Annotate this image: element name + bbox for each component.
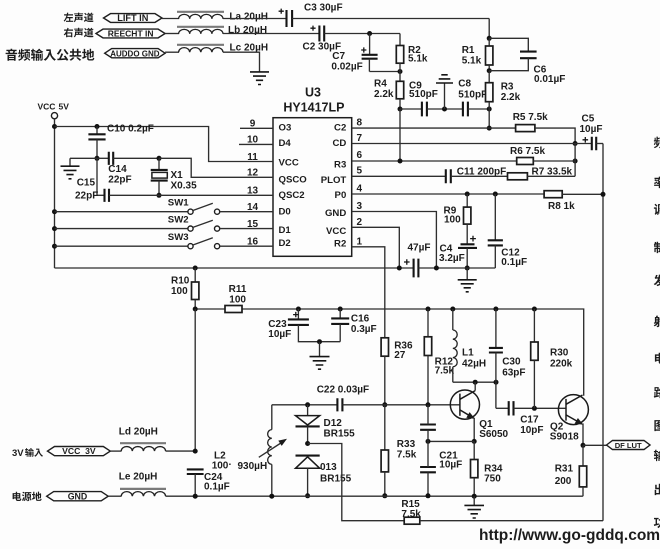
resistor R12 <box>426 307 431 312</box>
svg-text:10pF: 10pF <box>520 425 543 436</box>
svg-text:42µH: 42µH <box>462 359 486 370</box>
inductor La <box>179 14 223 19</box>
node <box>317 339 322 344</box>
node <box>157 193 162 198</box>
inductor L2 variable <box>271 405 273 430</box>
svg-text:3: 3 <box>357 201 363 212</box>
wire <box>488 19 490 39</box>
wire <box>223 33 319 35</box>
svg-text:R30: R30 <box>550 348 569 359</box>
wire SW3 line <box>55 245 188 247</box>
capacitor C8 <box>463 102 468 117</box>
resistor R10 <box>194 268 196 282</box>
svg-text:7.5k: 7.5k <box>397 450 417 461</box>
resistor R1 <box>488 38 490 46</box>
label 右声道 <box>64 28 94 38</box>
node <box>472 494 477 499</box>
wire ground rail <box>166 495 583 497</box>
wire VCC bus <box>54 119 56 268</box>
wire <box>596 143 603 145</box>
resistor R34 <box>473 441 475 459</box>
node <box>397 266 402 271</box>
resistor R7 <box>508 173 528 180</box>
wire <box>324 33 400 35</box>
svg-text:X1: X1 <box>171 170 184 181</box>
node <box>193 449 198 454</box>
wire <box>535 128 575 143</box>
wire <box>223 52 260 71</box>
wire <box>495 382 497 408</box>
pin 10 stub <box>239 143 273 145</box>
svg-text:R8 1k: R8 1k <box>548 201 575 212</box>
capacitor C14 <box>97 157 109 159</box>
wire emitter <box>473 418 475 442</box>
wire <box>514 407 567 409</box>
svg-text:C5: C5 <box>582 113 595 124</box>
wire emitter <box>582 423 584 445</box>
wire pin 1 line <box>352 247 385 338</box>
wire pin 2 line <box>352 227 400 268</box>
node <box>472 439 477 444</box>
svg-text:510pF: 510pF <box>458 89 487 100</box>
wire SW1 line <box>55 211 188 213</box>
switch SW1 <box>188 209 193 214</box>
svg-text:10µF: 10µF <box>439 460 462 471</box>
node <box>193 266 198 271</box>
svg-text:R5 7.5k: R5 7.5k <box>513 112 548 123</box>
wire <box>562 193 603 195</box>
wire <box>369 71 400 73</box>
svg-text:3V: 3V <box>12 448 24 459</box>
node <box>532 406 537 411</box>
svg-text:2: 2 <box>357 217 363 228</box>
svg-text:PLOT: PLOT <box>321 175 347 186</box>
svg-text:100: 100 <box>444 214 461 225</box>
capacitor C6 <box>489 38 528 51</box>
wire to pin 14 <box>220 211 273 213</box>
inductor Lb <box>179 29 223 34</box>
capacitor C7 <box>369 34 371 55</box>
transistor Q1 S6050 <box>450 390 479 419</box>
node <box>601 192 606 197</box>
svg-text:D4: D4 <box>279 138 292 149</box>
svg-text:BR155: BR155 <box>320 474 352 485</box>
svg-text:7.5k: 7.5k <box>401 509 421 520</box>
svg-text:6: 6 <box>357 150 363 161</box>
inductor Le <box>121 492 165 497</box>
wire pin 7 line <box>352 143 592 145</box>
node bus tap SW2 <box>52 226 57 231</box>
node R2 bottom <box>398 69 403 74</box>
inductor Ld <box>121 447 165 452</box>
wire <box>533 160 575 162</box>
svg-text:200: 200 <box>555 476 572 487</box>
node C9-C8 junction <box>442 107 447 112</box>
svg-text:BR155: BR155 <box>324 429 356 440</box>
wire varactor feed <box>308 444 405 521</box>
inductor Le core bar <box>120 488 166 490</box>
capacitor C24 <box>187 469 204 474</box>
svg-text:0.01µF: 0.01µF <box>534 74 565 85</box>
node bus tap SW3 <box>52 244 57 249</box>
svg-text:22pF: 22pF <box>75 191 98 202</box>
svg-text:C15: C15 <box>77 177 96 188</box>
wire R10 column down <box>194 309 196 451</box>
wire <box>427 108 463 110</box>
svg-text:GND: GND <box>68 491 88 501</box>
right edge cropped text column <box>654 137 660 149</box>
wire <box>420 520 603 522</box>
wire right rail <box>602 144 604 521</box>
resistor R2 <box>396 46 403 64</box>
svg-text:C16: C16 <box>351 313 370 324</box>
node <box>494 380 499 385</box>
wire <box>108 495 121 497</box>
node C2 junction <box>367 31 372 36</box>
capacitor C12 <box>493 192 498 197</box>
svg-text:C7: C7 <box>332 51 345 62</box>
svg-text:27: 27 <box>394 350 406 361</box>
capacitor C22 <box>337 398 342 411</box>
node <box>52 124 57 129</box>
svg-text:7.5k: 7.5k <box>435 366 455 377</box>
svg-text:0.3µF: 0.3µF <box>351 324 377 335</box>
resistor R36 <box>381 338 388 356</box>
node <box>434 266 439 271</box>
wire <box>223 18 286 20</box>
svg-text:X0.35: X0.35 <box>171 180 198 191</box>
svg-text:100: 100 <box>171 286 188 297</box>
svg-text:AUDDO GND: AUDDO GND <box>110 49 160 58</box>
svg-text:2.2k: 2.2k <box>501 92 521 103</box>
svg-text:S6050: S6050 <box>479 429 508 440</box>
wire <box>342 404 459 406</box>
node VCC 3V input flag <box>48 447 111 456</box>
node GND input flag <box>47 492 108 501</box>
node <box>426 402 431 407</box>
wire <box>399 63 401 71</box>
svg-text:C3 30µF: C3 30µF <box>304 3 343 14</box>
node <box>193 307 198 312</box>
svg-text:4: 4 <box>357 184 363 195</box>
node <box>426 493 431 498</box>
wire pin 13 line <box>109 194 273 196</box>
wire <box>162 18 179 20</box>
node <box>465 266 470 271</box>
node <box>573 159 578 164</box>
svg-text:O3: O3 <box>279 123 292 134</box>
ground <box>466 268 468 280</box>
svg-text:QSC2: QSC2 <box>279 190 305 201</box>
diode D12 BR155 <box>307 405 309 416</box>
svg-text:CD: CD <box>332 138 346 149</box>
node <box>573 141 578 146</box>
svg-text:D0: D0 <box>279 207 291 218</box>
svg-text:R33: R33 <box>397 439 416 450</box>
capacitor C16 <box>338 307 343 312</box>
inductor La core bar <box>177 11 224 13</box>
svg-text:510pF: 510pF <box>409 89 438 100</box>
node pin6-R4 junction <box>398 159 403 164</box>
svg-text:0.1µF: 0.1µF <box>501 257 527 268</box>
wire <box>166 450 196 452</box>
resistor R4 <box>396 81 403 99</box>
wire <box>583 444 607 446</box>
svg-text:750: 750 <box>484 474 501 485</box>
svg-text:5: 5 <box>357 166 363 177</box>
wire mid VCC line <box>55 267 414 269</box>
svg-text:C30: C30 <box>502 357 521 368</box>
inductor Lb core bar <box>177 26 224 28</box>
svg-text:·: · <box>229 460 232 471</box>
svg-text:Le 20µH: Le 20µH <box>119 472 158 483</box>
svg-text:R1: R1 <box>462 45 475 56</box>
wire <box>399 99 401 109</box>
svg-text:QSCO: QSCO <box>279 175 308 186</box>
svg-text:013: 013 <box>320 462 337 473</box>
svg-text:VCC 3V: VCC 3V <box>62 446 96 456</box>
wire <box>399 109 401 161</box>
svg-text:7: 7 <box>357 133 363 144</box>
ground <box>444 83 446 109</box>
wire SW2 line <box>55 228 188 230</box>
svg-text:SW1: SW1 <box>168 197 189 208</box>
svg-text:100: 100 <box>212 461 229 472</box>
node <box>305 441 310 446</box>
ground <box>473 496 475 505</box>
wire <box>165 33 179 35</box>
resistor R6 <box>517 158 534 165</box>
svg-text:HY1417LP: HY1417LP <box>283 101 344 115</box>
node <box>382 493 387 498</box>
svg-text:5V: 5V <box>59 102 70 112</box>
capacitor C21 upper <box>426 439 431 444</box>
node bus tap SW1 <box>52 209 57 214</box>
svg-text:D12: D12 <box>324 418 343 429</box>
wire <box>110 450 121 452</box>
node R4 bottom <box>398 107 403 112</box>
resistor R15 <box>404 517 420 524</box>
capacitor C23 <box>296 307 301 312</box>
wire <box>527 175 575 177</box>
svg-text:La 20µH: La 20µH <box>229 11 268 22</box>
capacitor C10 <box>96 127 98 135</box>
capacitor C11 <box>446 169 451 183</box>
capacitor 47uF <box>404 259 410 265</box>
wire to pin 15 <box>220 228 273 230</box>
svg-text:LIFT IN: LIFT IN <box>117 13 148 23</box>
node <box>269 494 274 499</box>
resistor R9 <box>465 192 470 197</box>
node <box>473 380 478 385</box>
svg-text:R3: R3 <box>334 160 346 171</box>
wire <box>488 102 490 109</box>
node R1 top <box>487 36 492 41</box>
resistor R30 <box>532 307 537 312</box>
label 左声道 <box>64 13 94 23</box>
node AUDDO GND input flag <box>105 49 165 58</box>
node DF LUT output flag <box>607 441 651 450</box>
svg-text:100: 100 <box>229 294 246 305</box>
node C8 right <box>487 107 492 112</box>
wire collector line <box>453 381 496 383</box>
wire <box>292 18 489 20</box>
node <box>157 156 162 161</box>
ground <box>250 72 269 85</box>
wire <box>451 175 508 177</box>
wire pin 8 line <box>352 127 516 129</box>
ground <box>319 342 321 357</box>
switch SW2 <box>188 226 193 231</box>
resistor R11 <box>225 306 242 313</box>
inductor Ld core bar <box>120 442 166 444</box>
svg-text:C10 0.2µF: C10 0.2µF <box>107 124 154 135</box>
svg-text:0.1µF: 0.1µF <box>204 482 230 493</box>
wire <box>399 72 401 82</box>
wire <box>165 51 179 53</box>
pin 9 stub <box>240 127 273 129</box>
wire pin 6 line <box>352 160 517 162</box>
resistor R5 <box>516 125 535 132</box>
svg-text:http://www.go-gddq.com: http://www.go-gddq.com <box>479 527 660 544</box>
svg-text:22pF: 22pF <box>108 175 131 186</box>
svg-text:D2: D2 <box>279 238 291 249</box>
svg-text:GND: GND <box>325 208 346 219</box>
node pin8 line junction <box>487 126 492 131</box>
wire to pin 12 <box>159 158 273 177</box>
wire pin 4 line <box>352 193 544 195</box>
node <box>95 124 100 129</box>
wire pin 5 line <box>352 175 446 177</box>
svg-text:2.2k: 2.2k <box>374 89 394 100</box>
svg-text:C8: C8 <box>458 79 471 90</box>
svg-text:C22 0.03µF: C22 0.03µF <box>317 385 369 396</box>
op-amp U3 HY1417LP body <box>273 118 352 257</box>
svg-text:930µH: 930µH <box>238 461 268 472</box>
label 音频输入公共地 <box>6 49 95 61</box>
svg-text:220k: 220k <box>550 359 573 370</box>
node REECHT IN input flag <box>96 29 165 38</box>
wire to pin 16 <box>220 245 273 247</box>
inductor Lc core bar <box>177 44 224 46</box>
node R1 bottom <box>487 68 492 73</box>
inductor Lc <box>179 48 223 53</box>
svg-text:P0: P0 <box>335 190 347 201</box>
svg-text:Ld 20µH: Ld 20µH <box>119 427 158 438</box>
svg-text:SW3: SW3 <box>168 232 189 243</box>
transistor Q2 S9018 <box>558 395 588 425</box>
switch SW3 <box>188 244 193 249</box>
svg-text:R2: R2 <box>334 239 346 250</box>
resistor R33 <box>384 405 386 450</box>
capacitor C21 lower <box>420 467 436 472</box>
wire Q1 base line <box>272 404 338 406</box>
svg-text:DF LUT: DF LUT <box>615 441 642 450</box>
node <box>193 494 198 499</box>
svg-text:5.1k: 5.1k <box>462 56 482 67</box>
svg-text:D1: D1 <box>279 225 292 236</box>
node <box>305 493 310 498</box>
capacitor C4 <box>466 224 468 244</box>
svg-text:R3: R3 <box>501 82 514 93</box>
capacitor C30 <box>493 307 498 312</box>
svg-text:10µF: 10µF <box>580 124 603 135</box>
capacitor C9 <box>400 108 422 110</box>
capacitor C15 <box>96 158 98 195</box>
svg-text:VCC: VCC <box>326 226 346 237</box>
capacitor C5 <box>583 137 589 143</box>
wire pin 3 line <box>352 212 437 269</box>
node <box>95 156 100 161</box>
svg-text:C2: C2 <box>334 123 346 134</box>
svg-text:8: 8 <box>357 118 363 129</box>
node <box>581 443 586 448</box>
svg-text:S9018: S9018 <box>550 432 579 443</box>
svg-text:C14: C14 <box>108 164 127 175</box>
wire oscillator supply bus <box>195 309 584 396</box>
svg-text:47µF: 47µF <box>408 242 431 253</box>
capacitor C2 <box>310 26 315 31</box>
svg-text:SW2: SW2 <box>168 214 189 225</box>
svg-text:REECHT IN: REECHT IN <box>108 29 154 39</box>
label 电源地 <box>13 492 42 502</box>
svg-text:U3: U3 <box>305 86 321 100</box>
wire VCC rail to pin 11 <box>55 127 274 162</box>
wire <box>468 108 489 110</box>
resistor R8 <box>544 191 562 198</box>
resistor R3 <box>488 71 490 83</box>
resistor R31 <box>582 445 584 466</box>
svg-text:R31: R31 <box>555 464 574 475</box>
svg-text:0.02µF: 0.02µF <box>331 62 362 73</box>
svg-text:10µF: 10µF <box>268 329 291 340</box>
capacitor C17 <box>496 407 509 409</box>
svg-text:63pF: 63pF <box>502 368 525 379</box>
capacitor C3 <box>279 9 284 14</box>
wire <box>488 109 490 128</box>
svg-text:VCC: VCC <box>38 102 56 112</box>
svg-text:VCC: VCC <box>279 158 299 169</box>
svg-text:5.1k: 5.1k <box>408 53 428 64</box>
wire <box>418 267 495 269</box>
wire <box>399 34 401 46</box>
wire <box>428 440 474 442</box>
ground <box>70 157 97 159</box>
svg-text:1: 1 <box>357 236 363 247</box>
node <box>305 402 310 407</box>
inductor L1 <box>450 307 455 312</box>
svg-text:L1: L1 <box>462 348 474 359</box>
wire <box>574 144 576 177</box>
svg-text:R6 7.5k: R6 7.5k <box>510 146 545 157</box>
node <box>382 402 387 407</box>
wire <box>194 474 196 496</box>
diode D13 BR155 <box>296 455 320 457</box>
crystal X1 <box>158 158 160 170</box>
svg-text:3.2µF: 3.2µF <box>439 253 465 264</box>
node LIFT IN input flag <box>104 14 163 23</box>
wire <box>488 65 490 71</box>
